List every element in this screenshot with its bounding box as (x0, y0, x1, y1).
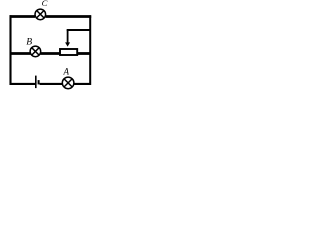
lamp A (62, 77, 74, 89)
wire: bottom rail left segment (10, 83, 36, 85)
wire: middle rail left segment (10, 52, 31, 55)
wire: battery to lamp A (40, 83, 63, 85)
wire: left rail (9, 15, 11, 85)
wire: right rail (89, 15, 91, 85)
lamp B (30, 46, 41, 57)
wire: top rail right segment (46, 15, 92, 18)
svg-text:B: B (26, 37, 32, 48)
wire: slider connector to right rail (67, 29, 91, 31)
lamp C (35, 9, 46, 20)
svg-text:C: C (42, 0, 48, 8)
rheostat R body (60, 49, 77, 55)
wire: top rail left segment (10, 15, 36, 18)
svg-text:A: A (63, 67, 70, 77)
wire: lamp A to right rail (74, 83, 91, 85)
wire: middle rail segment from lamp B to rheostat (41, 52, 61, 55)
rheostat slider arrow (65, 30, 70, 47)
wire: rheostat right terminal to right rail (77, 52, 91, 55)
battery (36, 76, 39, 89)
